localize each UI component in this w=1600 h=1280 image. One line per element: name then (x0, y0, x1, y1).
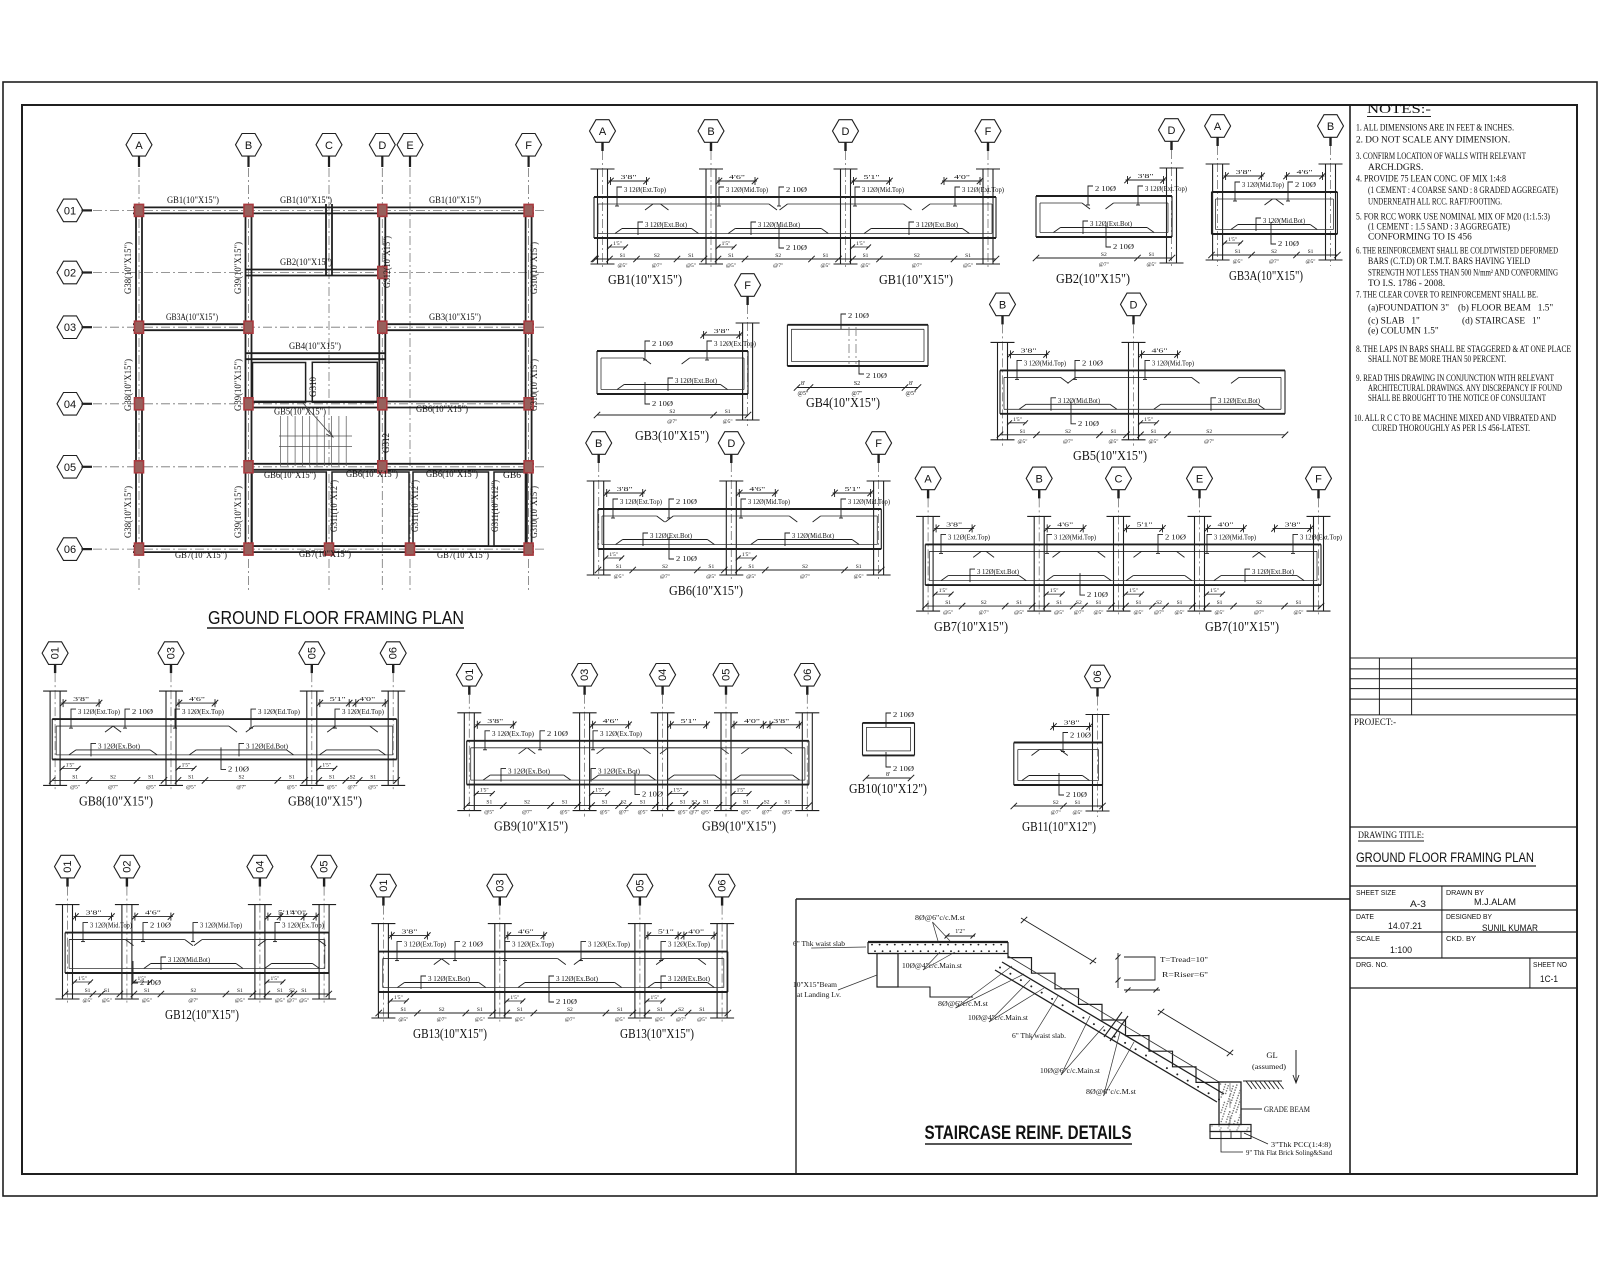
plan beam column F (525, 204, 527, 555)
svg-text:C: C (325, 140, 333, 152)
GB6 column F (873, 481, 875, 575)
GB1 grid bubble D (833, 120, 859, 143)
svg-text:DESIGNED BY: DESIGNED BY (1446, 912, 1492, 921)
svg-text:GB12(10"X15"): GB12(10"X15") (165, 1007, 239, 1022)
svg-text:S1: S1 (1136, 600, 1142, 606)
GB6 bottom rebar (623, 539, 708, 541)
svg-text:GB10(10"X12"): GB10(10"X12") (849, 781, 927, 796)
svg-text:3 12Ø(Ext.Bot): 3 12Ø(Ext.Bot) (1218, 396, 1260, 405)
svg-text:2 10Ø: 2 10Ø (132, 707, 154, 716)
svg-text:S2: S2 (350, 774, 356, 780)
svg-text:@5": @5" (741, 810, 751, 816)
plan room rects row 05-06 (252, 472, 326, 546)
svg-text:GB1(10"X15"): GB1(10"X15") (429, 195, 481, 206)
plan grid bubble 04 (57, 393, 83, 416)
GB9 grid bubble 01 (456, 664, 482, 687)
svg-text:@7": @7" (522, 810, 532, 816)
svg-text:S2: S2 (524, 800, 530, 806)
svg-text:G38(10"X15"): G38(10"X15") (123, 359, 134, 411)
svg-text:10. ALL R C C TO BE MACHINE MI: 10. ALL R C C TO BE MACHINE MIXED AND VI… (1354, 414, 1556, 424)
svg-text:@7": @7" (979, 610, 989, 616)
GB9 dimension line (467, 805, 809, 807)
svg-text:@5": @5" (600, 810, 610, 816)
svg-text:S1: S1 (708, 564, 714, 570)
svg-text:S1: S1 (329, 774, 335, 780)
svg-text:01: 01 (64, 205, 76, 217)
svg-text:@5": @5" (963, 263, 973, 269)
svg-text:T=Tread=10": T=Tread=10" (1160, 956, 1208, 964)
GB8 column 05 (306, 691, 308, 785)
svg-text:S1: S1 (784, 800, 790, 806)
svg-text:3 12Ø(Mid.Top): 3 12Ø(Mid.Top) (726, 185, 768, 194)
svg-text:@5": @5" (726, 263, 736, 269)
svg-text:GB1(10"X15"): GB1(10"X15") (280, 195, 332, 206)
svg-text:8. THE LAPS IN BARS SHALL BE S: 8. THE LAPS IN BARS SHALL BE STAGGERED &… (1356, 345, 1571, 355)
svg-text:S1: S1 (945, 600, 951, 606)
svg-text:S1: S1 (1296, 600, 1302, 606)
svg-text:E: E (1196, 473, 1203, 485)
GB7 grid bubble B (1026, 467, 1052, 490)
svg-text:1'5": 1'5" (510, 995, 519, 1001)
svg-text:S1: S1 (277, 988, 283, 994)
svg-text:3 12Ø(Mid.Top): 3 12Ø(Mid.Top) (1152, 358, 1194, 367)
svg-text:@7": @7" (773, 263, 783, 269)
GB12 grid bubble 05 (311, 855, 337, 878)
svg-text:06: 06 (388, 647, 400, 659)
svg-text:S1: S1 (965, 253, 971, 259)
svg-text:GB3A(10"X15"): GB3A(10"X15") (1229, 268, 1303, 283)
svg-text:S1: S1 (602, 800, 608, 806)
svg-text:6. THE REINFORCEMENT SHALL BE: 6. THE REINFORCEMENT SHALL BE COLDTWISTE… (1356, 247, 1558, 257)
svg-text:2 10Ø: 2 10Ø (1165, 532, 1187, 541)
svg-text:G39(10"X15"): G39(10"X15") (233, 359, 244, 411)
svg-text:3 12Ø(Ext.Bot): 3 12Ø(Ext.Bot) (916, 220, 958, 229)
svg-text:3 12Ø(Ex.Top): 3 12Ø(Ex.Top) (492, 729, 534, 738)
plan grid bubble 05 (57, 456, 83, 479)
svg-text:S1: S1 (1151, 429, 1157, 435)
svg-text:UNDERNEATH ALL RCC. RAFT/FOOTI: UNDERNEATH ALL RCC. RAFT/FOOTING. (1368, 198, 1502, 208)
staircase steps (1008, 942, 1220, 1082)
GB13 bottom rebar (404, 982, 478, 984)
plan grid line C (328, 168, 330, 592)
svg-text:1'5": 1'5" (1210, 588, 1219, 594)
svg-text:S2: S2 (439, 1007, 445, 1013)
GB7 support dimensions (934, 527, 974, 529)
svg-text:S1: S1 (1177, 600, 1183, 606)
GB3A dimension line (1212, 254, 1338, 256)
svg-text:S1: S1 (1075, 800, 1081, 806)
GB11 grid bubble 06 (1085, 665, 1111, 688)
svg-text:S1: S1 (617, 1007, 623, 1013)
svg-text:@5": @5" (820, 263, 830, 269)
GB13 column 06 (716, 924, 718, 1018)
svg-text:D: D (727, 438, 735, 450)
svg-text:@5": @5" (854, 574, 864, 580)
svg-text:3 12Ø(Ex.Bot): 3 12Ø(Ex.Bot) (508, 767, 550, 776)
staircase detail box (795, 899, 797, 1174)
svg-text:2 10Ø: 2 10Ø (848, 311, 870, 320)
svg-text:4'6": 4'6" (1152, 347, 1169, 354)
svg-text:S2: S2 (914, 253, 920, 259)
GB5 beam body (1000, 369, 1285, 371)
brick soling (1210, 1132, 1251, 1139)
svg-text:E: E (406, 140, 413, 152)
svg-text:@5": @5" (70, 784, 80, 790)
svg-text:(b) FLOOR BEAM 1.5": (b) FLOOR BEAM 1.5" (1458, 303, 1553, 314)
GB7 column A (922, 516, 924, 611)
svg-text:4. PROVIDE 75 LEAN CONC. OF MI: 4. PROVIDE 75 LEAN CONC. OF MIX 1:4:8 (1356, 175, 1506, 185)
GB6 support dimensions (605, 492, 645, 494)
GB12 column 04 (254, 905, 256, 999)
plan grid line 04 (93, 403, 545, 405)
svg-text:@5": @5" (655, 1017, 665, 1023)
GB9 grid bubble 06 (794, 664, 820, 687)
GB13 column 01 (377, 924, 379, 1018)
svg-text:S2: S2 (802, 564, 808, 570)
svg-text:S2: S2 (1101, 252, 1107, 258)
svg-text:@5": @5" (943, 610, 953, 616)
svg-text:G38(10"X15"): G38(10"X15") (123, 242, 134, 294)
svg-text:2 10Ø: 2 10Ø (642, 790, 664, 799)
svg-text:10Ø@6"c/c.Main.st: 10Ø@6"c/c.Main.st (1040, 1067, 1100, 1075)
svg-text:1'5": 1'5" (322, 762, 331, 768)
GB1 support dimensions (609, 180, 649, 182)
svg-text:@7": @7" (565, 1017, 575, 1023)
svg-text:3 12Ø(Ext.Bot): 3 12Ø(Ext.Bot) (650, 531, 692, 540)
svg-text:G310(10"X15"): G310(10"X15") (529, 359, 540, 411)
svg-text:(1 CEMENT : 1.5 SAND : 3 AGGRE: (1 CEMENT : 1.5 SAND : 3 AGGREGATE) (1368, 222, 1510, 233)
GB6 column B (593, 481, 595, 575)
plan stair direction arrow (303, 403, 333, 437)
svg-text:D: D (1130, 299, 1138, 311)
svg-text:S1: S1 (237, 988, 243, 994)
svg-text:GB6(10"X15"): GB6(10"X15") (416, 404, 468, 415)
GB12 grid bubble 02 (114, 855, 140, 878)
svg-text:2 10Ø: 2 10Ø (676, 497, 698, 506)
svg-text:@7": @7" (800, 574, 810, 580)
svg-text:S1: S1 (856, 564, 862, 570)
svg-text:3 12Ø(Ext.Top): 3 12Ø(Ext.Top) (962, 185, 1004, 194)
svg-text:3 12Ø(Ed.Top): 3 12Ø(Ed.Top) (258, 707, 300, 716)
GB13 grid bubble 05 (627, 874, 653, 897)
svg-text:S2: S2 (669, 409, 675, 415)
GB11 column 06 (1092, 715, 1094, 812)
svg-text:1'5": 1'5" (613, 241, 622, 247)
GB9 beam body (467, 740, 809, 742)
svg-text:04: 04 (657, 669, 669, 681)
svg-text:S2: S2 (775, 253, 781, 259)
plan beam GB4 (245, 352, 385, 354)
GB8 dimension line (52, 779, 397, 781)
svg-text:DRAWN BY: DRAWN BY (1446, 888, 1484, 897)
svg-text:GB3(10"X15"): GB3(10"X15") (635, 428, 709, 443)
svg-text:S1: S1 (562, 800, 568, 806)
staircase tread riser diagram (1117, 953, 1119, 988)
staircase footing (1210, 1125, 1251, 1132)
svg-text:SHALL NOT BE MORE THAN 50 PERC: SHALL NOT BE MORE THAN 50 PERCENT. (1368, 355, 1506, 365)
GB11 beam body (1014, 742, 1103, 744)
svg-text:9" Thk Flat Brick Soling&Sand: 9" Thk Flat Brick Soling&Sand (1246, 1149, 1332, 1157)
svg-text:A: A (1214, 121, 1222, 133)
svg-text:3 12Ø(Ext.Top): 3 12Ø(Ext.Top) (620, 497, 662, 506)
svg-text:PROJECT:-: PROJECT:- (1354, 718, 1396, 728)
plan grid bubble 01 (57, 199, 83, 222)
svg-text:6" Thk waist slab: 6" Thk waist slab (793, 940, 846, 948)
svg-text:S1: S1 (688, 253, 694, 259)
svg-text:S1: S1 (680, 800, 686, 806)
svg-text:1'5": 1'5" (742, 552, 751, 558)
svg-text:B: B (707, 126, 714, 138)
svg-text:8': 8' (801, 381, 805, 387)
svg-text:@5": @5" (560, 810, 570, 816)
svg-text:GB6(10"X15"): GB6(10"X15") (426, 469, 478, 480)
svg-text:GB1(10"X15"): GB1(10"X15") (608, 272, 682, 287)
svg-text:S1: S1 (640, 800, 646, 806)
svg-text:S1: S1 (517, 1007, 523, 1013)
svg-text:1'5": 1'5" (1050, 588, 1059, 594)
GB12 support dimensions (74, 916, 114, 918)
GB7 grid bubble E (1187, 467, 1213, 490)
GB9 support dimensions (475, 724, 515, 726)
svg-text:1'5": 1'5" (182, 762, 191, 768)
svg-text:7. THE CLEAR COVER TO REINFORC: 7. THE CLEAR COVER TO REINFORCEMENT SHAL… (1356, 291, 1538, 301)
svg-text:@7": @7" (619, 810, 629, 816)
svg-text:DRAWING TITLE:: DRAWING TITLE: (1358, 831, 1424, 841)
svg-text:S2: S2 (854, 381, 860, 387)
svg-text:G39(10"X15"): G39(10"X15") (233, 242, 244, 294)
staircase waist slab (1002, 962, 1224, 1094)
GB2 dimension line (1036, 257, 1172, 259)
svg-text:SCALE: SCALE (1356, 934, 1380, 943)
svg-text:3'8": 3'8" (714, 328, 731, 335)
svg-text:5'1": 5'1" (1137, 521, 1154, 528)
svg-text:GROUND FLOOR FRAMING PLAN: GROUND FLOOR FRAMING PLAN (1356, 850, 1534, 865)
staircase landing underside (898, 987, 973, 997)
GB8 grid bubble 03 (158, 642, 184, 665)
svg-text:1'5": 1'5" (66, 762, 75, 768)
svg-text:3 12Ø(Mid.Bot): 3 12Ø(Mid.Bot) (792, 531, 834, 540)
svg-text:3 12Ø(Ex.Top): 3 12Ø(Ex.Top) (600, 729, 642, 738)
plan grid bubble D (369, 134, 395, 157)
svg-text:S2: S2 (238, 774, 244, 780)
svg-text:04: 04 (254, 860, 266, 872)
GB8 grid bubble 06 (380, 642, 406, 665)
GB12 grid bubble 01 (55, 855, 81, 878)
svg-text:3 12Ø(Ext.Top): 3 12Ø(Ext.Top) (404, 940, 446, 949)
plan grid bubble A (126, 134, 152, 157)
svg-text:(assumed): (assumed) (1252, 1063, 1287, 1071)
GB3A grid bubble B (1318, 115, 1344, 138)
svg-text:9. READ THIS DRAWING IN CONJUN: 9. READ THIS DRAWING IN CONJUNCTION WITH… (1356, 374, 1554, 384)
svg-text:GB6(10"X15"): GB6(10"X15") (346, 469, 398, 480)
svg-text:S2: S2 (691, 800, 697, 806)
svg-text:@5": @5" (368, 784, 378, 790)
GB13 grid bubble 03 (487, 874, 513, 897)
svg-text:@5": @5" (615, 1017, 625, 1023)
plan grid line B (248, 168, 250, 592)
svg-text:@7": @7" (347, 784, 357, 790)
plan column markers (135, 204, 144, 216)
svg-text:GB3(10"X15"): GB3(10"X15") (429, 312, 481, 323)
svg-text:GB3A(10"X15"): GB3A(10"X15") (166, 312, 218, 323)
svg-text:3'8": 3'8" (1138, 173, 1155, 180)
plan grid line D (381, 168, 383, 592)
svg-text:5. FOR RCC WORK USE NOMINAL MI: 5. FOR RCC WORK USE NOMINAL MIX OF M20 (… (1356, 212, 1550, 223)
GB11 dimension line (1014, 805, 1103, 807)
GB1 top rebar bars (598, 203, 661, 205)
svg-text:@7": @7" (689, 810, 699, 816)
svg-text:G312(10"X15"): G312(10"X15") (382, 236, 393, 288)
svg-text:G311(10"X12"): G311(10"X12") (329, 480, 340, 532)
svg-text:2 10Ø: 2 10Ø (1066, 790, 1088, 799)
svg-text:GB8(10"X15"): GB8(10"X15") (288, 793, 362, 808)
GB5 column B (997, 342, 999, 439)
svg-text:@7": @7" (1051, 810, 1061, 816)
svg-text:4'6": 4'6" (189, 696, 206, 703)
GB6 column D (725, 481, 727, 575)
svg-text:4'6": 4'6" (603, 718, 620, 725)
plan beam column D (378, 204, 380, 470)
GB8 bottom rebar (76, 749, 150, 751)
plan grid line 05 (93, 466, 545, 468)
GB9 bottom rebar (490, 774, 564, 776)
svg-text:S1: S1 (1217, 600, 1223, 606)
svg-text:3 12Ø(Mid.Top): 3 12Ø(Mid.Top) (862, 185, 904, 194)
svg-text:8': 8' (909, 381, 913, 387)
svg-text:S1: S1 (699, 1007, 705, 1013)
svg-text:3 12Ø(Ext.Top): 3 12Ø(Ext.Top) (1300, 532, 1342, 541)
GB6 grid bubble F (866, 432, 892, 455)
svg-text:B: B (1327, 121, 1334, 133)
GB10 dimension line (866, 777, 911, 779)
svg-text:4'0": 4'0" (954, 174, 971, 181)
svg-text:@7": @7" (287, 998, 297, 1004)
svg-text:05: 05 (634, 879, 646, 891)
svg-text:3 12Ø(Ex.Top): 3 12Ø(Ex.Top) (512, 940, 554, 949)
svg-text:(1 CEMENT : 4 COARSE SAND : 8: (1 CEMENT : 4 COARSE SAND : 8 GRADED AGG… (1368, 185, 1558, 196)
svg-text:S2: S2 (621, 800, 627, 806)
GB8 grid bubble 05 (299, 642, 325, 665)
svg-text:@5": @5" (1233, 259, 1243, 265)
svg-text:DRG. NO.: DRG. NO. (1356, 960, 1388, 969)
plan beam row 03 right (GB3) (379, 323, 534, 325)
svg-text:S1: S1 (400, 1007, 406, 1013)
svg-text:3 12Ø(Ext.Top): 3 12Ø(Ext.Top) (78, 707, 120, 716)
svg-text:S1: S1 (823, 253, 829, 259)
svg-text:GB1(10"X15"): GB1(10"X15") (879, 272, 953, 287)
svg-text:2 10Ø: 2 10Ø (1070, 731, 1092, 740)
GB1 bottom rebar (622, 228, 692, 230)
svg-text:@7": @7" (437, 1017, 447, 1023)
svg-text:C: C (1115, 473, 1123, 485)
svg-text:@5": @5" (906, 391, 918, 397)
plan beam row 02 (GB2) (245, 269, 385, 271)
svg-text:14.07.21: 14.07.21 (1388, 921, 1422, 931)
svg-text:@5": @5" (235, 998, 245, 1004)
svg-text:S1: S1 (1308, 249, 1314, 255)
svg-text:3. CONFIRM LOCATION OF WALLS W: 3. CONFIRM LOCATION OF WALLS WITH RELEVA… (1356, 152, 1526, 162)
svg-text:@5": @5" (697, 1017, 707, 1023)
svg-text:3'8": 3'8" (1285, 521, 1302, 528)
svg-text:06: 06 (64, 544, 76, 556)
svg-text:S2: S2 (1206, 429, 1212, 435)
svg-text:@5": @5" (860, 263, 870, 269)
svg-text:5'1": 5'1" (864, 174, 881, 181)
svg-text:1'5": 1'5" (394, 995, 403, 1001)
svg-text:S2: S2 (1156, 600, 1162, 606)
GB1 grid bubble A (590, 120, 616, 143)
GB2 column D (1166, 168, 1168, 263)
svg-text:S1: S1 (743, 800, 749, 806)
svg-text:3 12Ø(Mid.Bot): 3 12Ø(Mid.Bot) (1263, 216, 1305, 225)
plan grid line A (138, 168, 140, 592)
svg-text:3 12Ø(Ext.Bot): 3 12Ø(Ext.Bot) (977, 567, 1019, 576)
svg-text:3 12Ø(Ex.Top): 3 12Ø(Ex.Top) (714, 339, 756, 348)
plan grid bubble 02 (57, 261, 83, 284)
GB7 grid bubble F (1306, 467, 1332, 490)
svg-text:06: 06 (717, 879, 729, 891)
GB11 support dimensions (1052, 726, 1092, 728)
svg-text:@5": @5" (82, 998, 92, 1004)
svg-text:S1: S1 (104, 988, 110, 994)
svg-text:5'1": 5'1" (658, 929, 675, 936)
GB3 dimension line (597, 414, 748, 416)
GB3 bottom rebar (624, 384, 720, 386)
svg-text:S2: S2 (110, 774, 116, 780)
svg-text:S2: S2 (1076, 600, 1082, 606)
svg-text:01: 01 (378, 879, 390, 891)
GB13 grid bubble 01 (370, 874, 396, 897)
GB5 dimension line (1000, 434, 1285, 436)
svg-text:SHEET NO: SHEET NO (1533, 960, 1567, 969)
svg-text:GB11(10"X12"): GB11(10"X12") (1022, 819, 1096, 834)
svg-text:3 12Ø(Mid.Bot): 3 12Ø(Mid.Bot) (168, 955, 210, 964)
staircase break marks (1104, 1012, 1122, 1037)
svg-text:05: 05 (319, 860, 331, 872)
plan grid bubble E (397, 134, 423, 157)
svg-text:4'0": 4'0" (744, 718, 761, 725)
GB5 support dimensions (1009, 353, 1049, 355)
svg-text:S1: S1 (1016, 600, 1022, 606)
svg-text:S1: S1 (616, 564, 622, 570)
svg-text:A-3: A-3 (1410, 899, 1426, 909)
GB7 column B (1033, 516, 1035, 611)
svg-text:3 12Ø(Mid.Top): 3 12Ø(Mid.Top) (848, 497, 890, 506)
svg-text:3 12Ø(Mid.Top): 3 12Ø(Mid.Top) (748, 497, 790, 506)
svg-text:02: 02 (121, 860, 133, 872)
svg-text:B: B (245, 140, 252, 152)
svg-text:D: D (1168, 125, 1176, 137)
svg-text:GB7(10"X15"): GB7(10"X15") (175, 550, 227, 561)
svg-text:03: 03 (579, 669, 591, 681)
GB12 column 02 (121, 905, 123, 999)
svg-text:03: 03 (494, 879, 506, 891)
svg-text:1'5": 1'5" (1129, 588, 1138, 594)
svg-text:3 12Ø(Ex.Bot): 3 12Ø(Ex.Bot) (598, 767, 640, 776)
svg-text:G311(10"X12"): G311(10"X12") (490, 480, 501, 532)
svg-text:S1: S1 (486, 800, 492, 806)
svg-text:S1: S1 (863, 253, 869, 259)
GB11 bottom rebar (1029, 775, 1083, 777)
svg-text:1'5": 1'5" (1228, 237, 1237, 243)
GB9 column 01 (463, 713, 465, 811)
svg-text:2 10Ø: 2 10Ø (676, 554, 698, 563)
svg-text:G312: G312 (382, 433, 392, 453)
svg-text:1'5": 1'5" (595, 788, 604, 794)
staircase landing beam (877, 954, 898, 988)
svg-text:8Ø@6"c/c.M.st: 8Ø@6"c/c.M.st (1086, 1088, 1136, 1096)
svg-text:3 12Ø(Ext.Top): 3 12Ø(Ext.Top) (624, 185, 666, 194)
